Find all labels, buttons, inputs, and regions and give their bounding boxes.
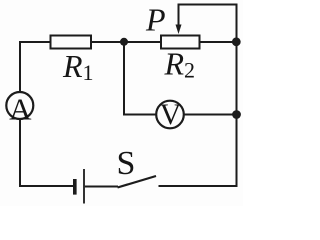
ammeter A body — [6, 92, 33, 119]
node junction between R1 and R2 — [120, 38, 128, 46]
svg-text:V: V — [160, 98, 182, 131]
wire voltmeter right terminal to right rail — [184, 114, 237, 116]
svg-text:S: S — [117, 145, 136, 182]
wire node to R2 left terminal — [124, 41, 161, 43]
wire battery to switch pivot — [85, 186, 118, 188]
voltmeter V body — [156, 101, 184, 129]
svg-text:R1: R1 — [62, 48, 94, 85]
node junction at top of right rail — [232, 37, 241, 46]
battery long plate (+) — [83, 169, 85, 204]
wire right rail upper (node to voltmeter node) — [236, 42, 238, 115]
wire rheostat wiper to right rail (top staple) — [179, 5, 237, 43]
wire top-left: left rail upper + top wire to R1 — [20, 42, 51, 91]
wire right rail lower + bottom wire to switch — [159, 115, 237, 187]
wire left rail lower (ammeter to bottom wire) — [20, 119, 73, 186]
svg-text:R2: R2 — [164, 46, 196, 83]
svg-text:A: A — [9, 92, 32, 127]
wire R1 right terminal to node — [91, 41, 124, 43]
resistor R1 — [51, 36, 92, 49]
wire voltmeter branch from node down and right to voltmeter — [124, 42, 157, 115]
rheostat wiper arrowhead — [176, 25, 182, 35]
battery short thick plate (-) — [73, 179, 77, 195]
node junction voltmeter wire and right rail — [232, 110, 241, 119]
wire R2 right terminal to right rail — [200, 41, 237, 43]
svg-text:P: P — [145, 2, 166, 38]
switch S lever — [118, 176, 157, 188]
rheostat R2 body — [161, 36, 200, 49]
